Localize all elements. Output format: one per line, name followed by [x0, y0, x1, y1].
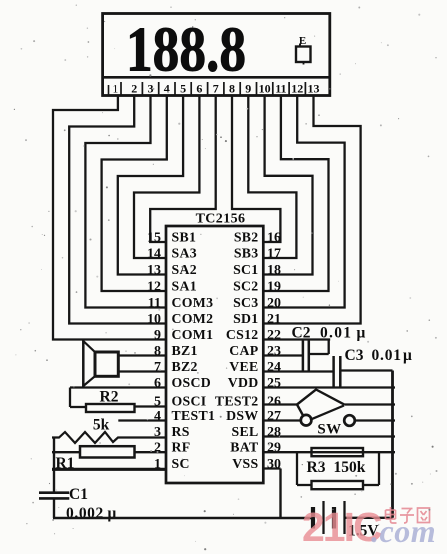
svg-text:4: 4 — [164, 81, 170, 95]
svg-text:R3: R3 — [307, 459, 326, 476]
svg-text:16: 16 — [267, 230, 281, 245]
svg-text:SB3: SB3 — [234, 245, 259, 260]
svg-text:C1: C1 — [69, 486, 88, 503]
svg-text:SA1: SA1 — [172, 278, 197, 293]
svg-text:OSCD: OSCD — [172, 375, 212, 390]
svg-text:6: 6 — [196, 81, 202, 95]
svg-text:9: 9 — [154, 328, 161, 343]
svg-text:VSS: VSS — [232, 456, 258, 471]
svg-text:.com: .com — [371, 513, 436, 549]
svg-text:VDD: VDD — [228, 375, 259, 390]
svg-text:VEE: VEE — [229, 359, 258, 374]
svg-text:μ: μ — [108, 505, 117, 522]
svg-text:5: 5 — [180, 81, 186, 95]
svg-text:150k: 150k — [334, 459, 366, 476]
svg-text:SC1: SC1 — [233, 262, 258, 277]
svg-text:RF: RF — [172, 440, 191, 455]
svg-text:19: 19 — [267, 279, 281, 294]
svg-text:10: 10 — [147, 312, 161, 327]
svg-text:1: 1 — [112, 81, 118, 95]
svg-text:13: 13 — [147, 263, 161, 278]
svg-text:SC2: SC2 — [233, 278, 258, 293]
svg-text:SW: SW — [317, 422, 341, 438]
svg-text:7: 7 — [213, 81, 219, 95]
svg-text:SA3: SA3 — [172, 245, 197, 260]
svg-text:0.002: 0.002 — [66, 505, 104, 522]
svg-text:BZ2: BZ2 — [172, 359, 198, 374]
svg-text:DSW: DSW — [226, 408, 258, 423]
svg-text:COM2: COM2 — [172, 311, 214, 326]
svg-text:14: 14 — [147, 246, 161, 261]
svg-text:COM3: COM3 — [172, 295, 214, 310]
svg-text:11: 11 — [275, 81, 286, 95]
svg-text:21: 21 — [267, 312, 281, 327]
svg-text:C3: C3 — [345, 347, 364, 364]
svg-text:μ: μ — [357, 325, 366, 342]
svg-text:SC: SC — [172, 456, 190, 471]
svg-text:SC3: SC3 — [233, 295, 258, 310]
svg-text:188.8: 188.8 — [126, 14, 246, 85]
svg-text:0.01: 0.01 — [320, 325, 352, 342]
svg-text:BZ1: BZ1 — [172, 343, 198, 358]
svg-text:R2: R2 — [100, 389, 119, 406]
svg-text:11: 11 — [148, 296, 161, 311]
svg-text:12: 12 — [291, 81, 303, 95]
svg-text:10: 10 — [259, 81, 271, 95]
svg-text:CAP: CAP — [229, 343, 259, 358]
svg-text:SB1: SB1 — [172, 229, 197, 244]
svg-text:26: 26 — [267, 394, 281, 409]
svg-text:TEST2: TEST2 — [215, 393, 259, 408]
svg-text:18: 18 — [267, 263, 281, 278]
svg-text:OSCI: OSCI — [172, 393, 207, 408]
svg-text:CS12: CS12 — [226, 327, 259, 342]
svg-text:2: 2 — [131, 81, 137, 95]
svg-text:SA2: SA2 — [172, 262, 197, 277]
svg-text:μ: μ — [403, 347, 412, 364]
svg-text:COM1: COM1 — [172, 327, 214, 342]
svg-text:SB2: SB2 — [234, 229, 259, 244]
svg-text:SEL: SEL — [232, 424, 259, 439]
svg-text:21IC: 21IC — [302, 504, 382, 550]
svg-text:5k: 5k — [93, 417, 110, 434]
svg-text:12: 12 — [147, 279, 161, 294]
svg-text:9: 9 — [245, 81, 251, 95]
svg-text:RS: RS — [172, 424, 190, 439]
svg-text:TEST1: TEST1 — [172, 408, 216, 423]
svg-text:TC2156: TC2156 — [196, 212, 246, 227]
svg-text:SD1: SD1 — [233, 311, 258, 326]
svg-text:17: 17 — [267, 246, 281, 261]
svg-text:20: 20 — [267, 296, 281, 311]
svg-text:0.01: 0.01 — [372, 347, 402, 364]
svg-text:13: 13 — [308, 81, 320, 95]
svg-text:C2: C2 — [292, 325, 311, 342]
svg-text:BAT: BAT — [230, 440, 258, 455]
svg-text:8: 8 — [229, 81, 235, 95]
svg-text:15: 15 — [147, 230, 161, 245]
